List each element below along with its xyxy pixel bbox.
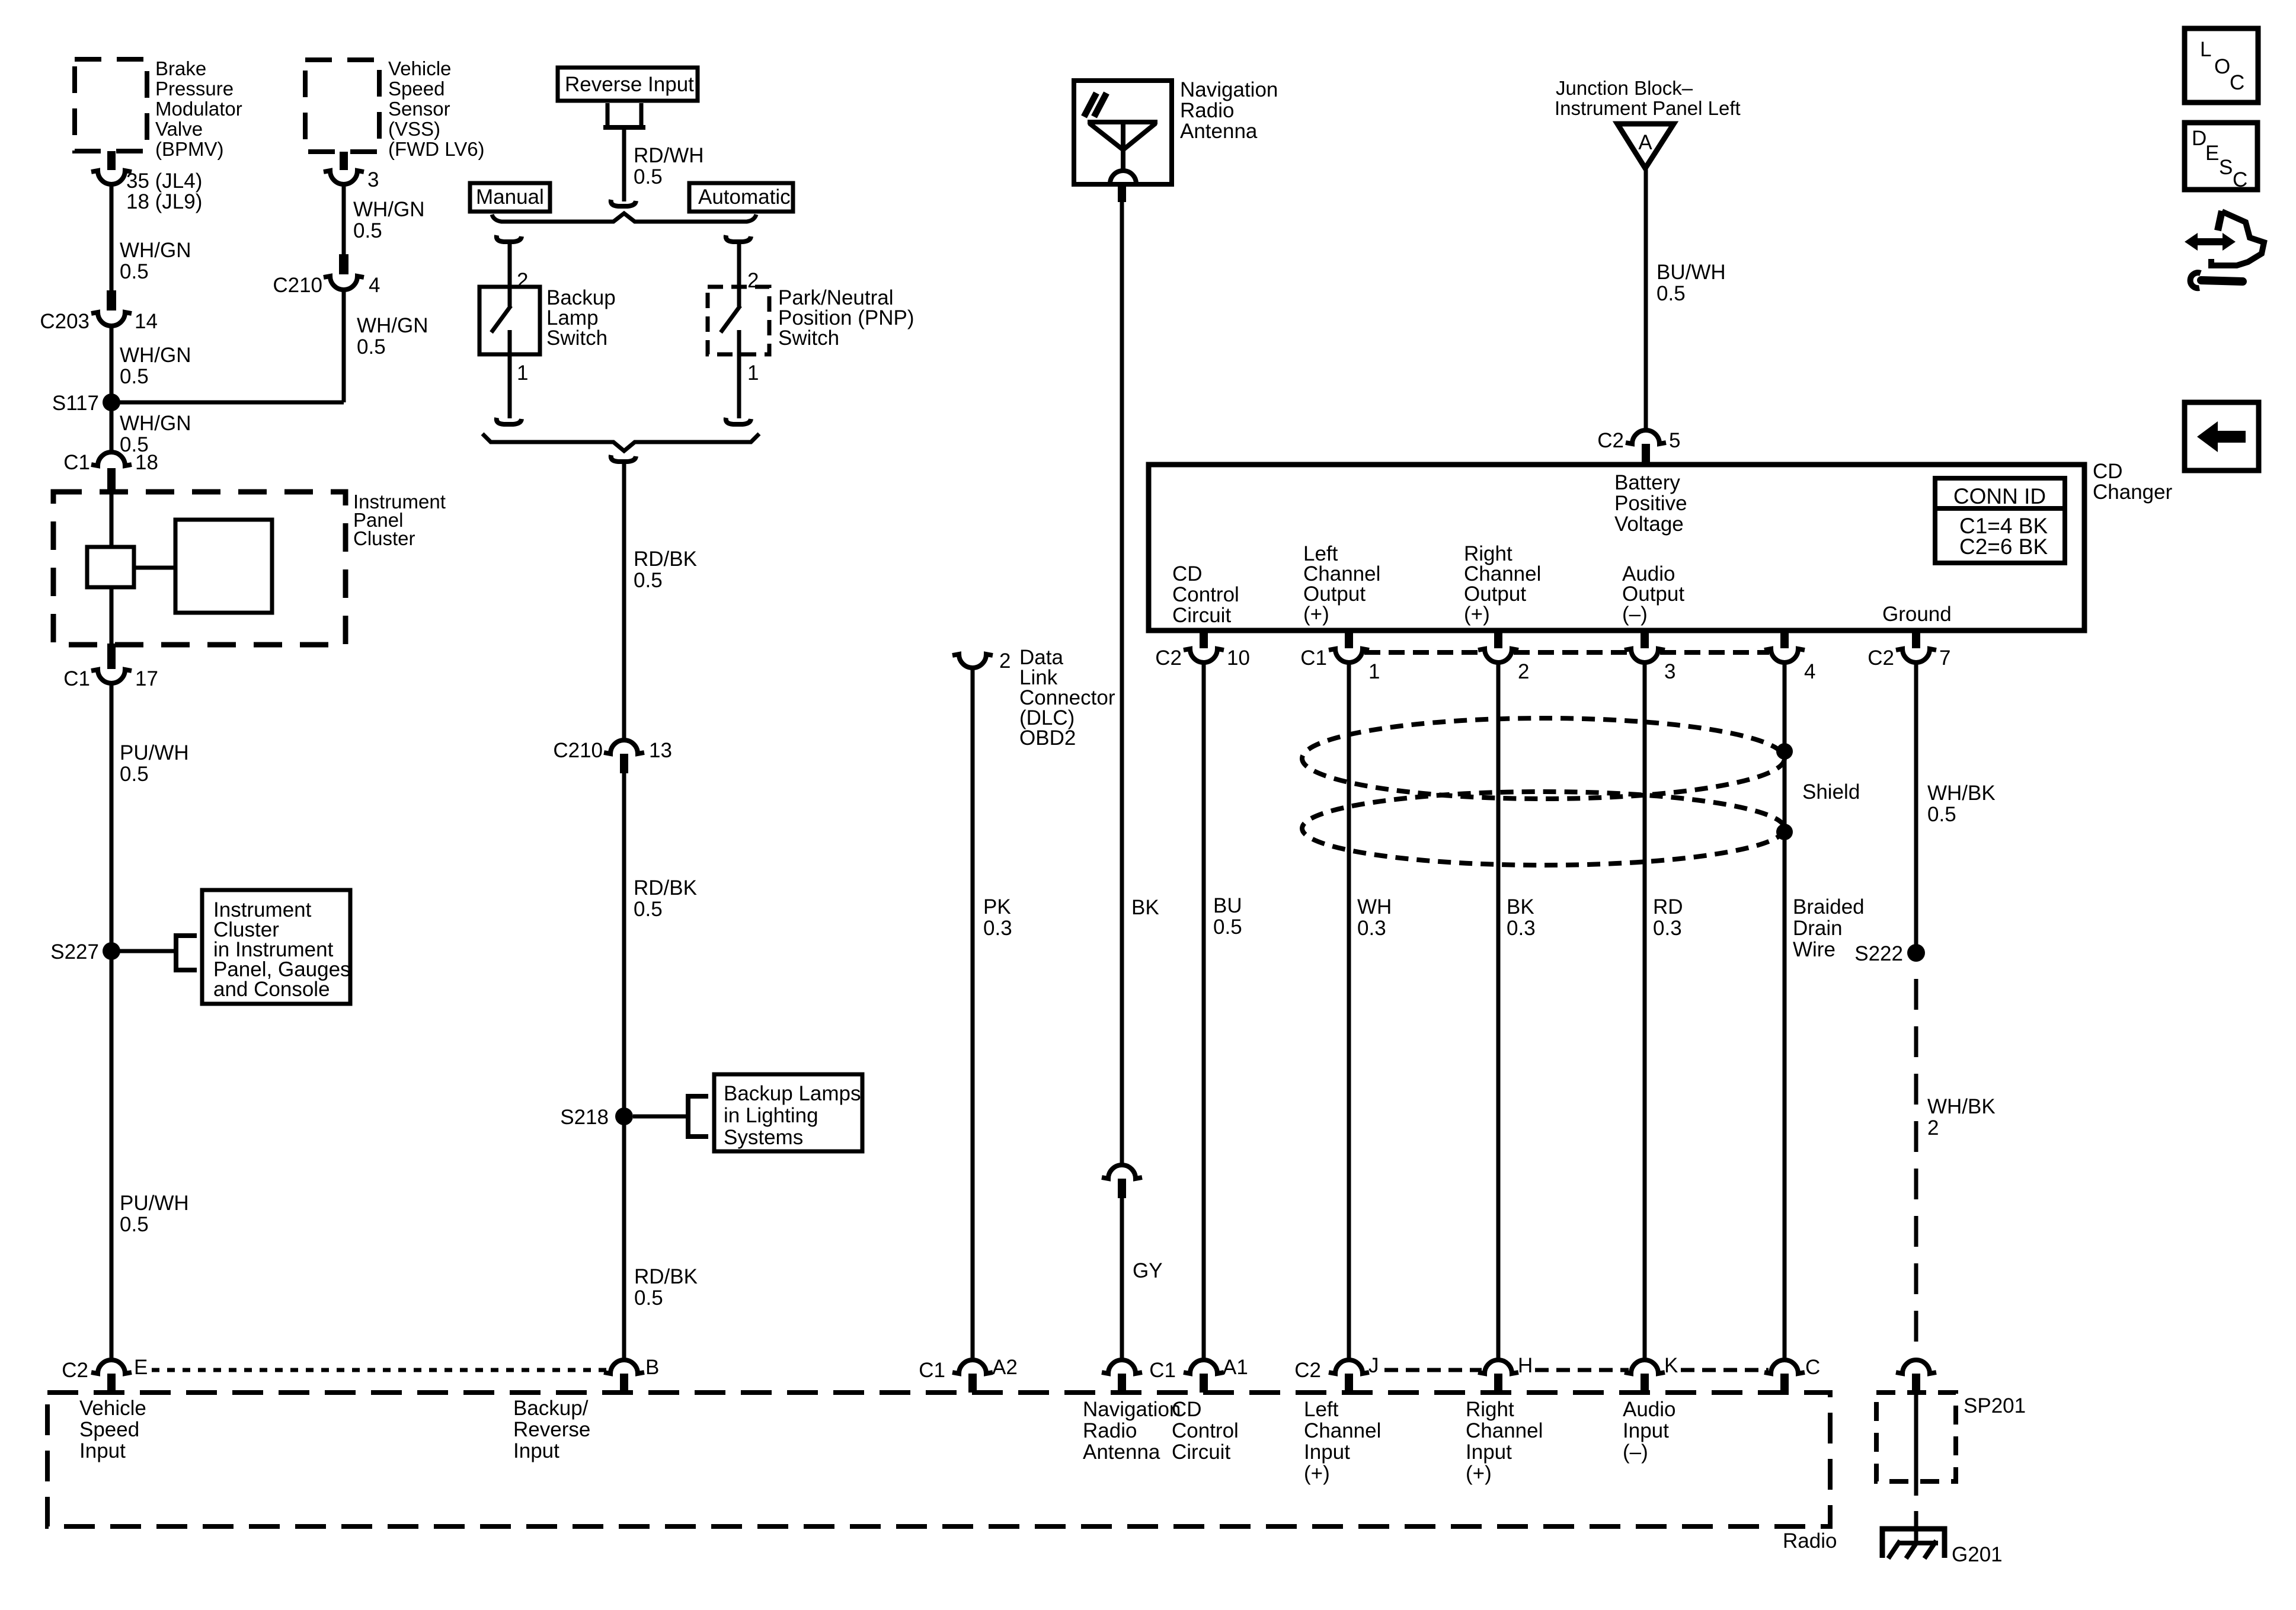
connector C1 pin A1 [1184, 1360, 1224, 1374]
svg-text:0.5: 0.5 [634, 165, 663, 188]
svg-text:E: E [2205, 142, 2219, 165]
svg-text:0.5: 0.5 [353, 219, 382, 242]
svg-text:L: L [2200, 38, 2211, 61]
svg-text:(–): (–) [1623, 1441, 1648, 1464]
svg-text:0.3: 0.3 [1507, 917, 1536, 940]
svg-text:Systems: Systems [724, 1126, 803, 1149]
inline connector C203 bar [107, 290, 116, 311]
svg-text:BU/WH: BU/WH [1657, 261, 1726, 284]
pin stub A2 [968, 1374, 977, 1393]
svg-text:BU: BU [1213, 894, 1242, 917]
wire WH/GN from VSS to C210 [342, 184, 346, 255]
svg-text:WH: WH [1357, 895, 1392, 918]
svg-text:(FWD LV6): (FWD LV6) [388, 138, 485, 160]
svg-text:2: 2 [1518, 660, 1529, 683]
component box Park/Neutral Position Switch (dashed) [708, 287, 769, 354]
wire S117 to VSS branch [111, 401, 344, 405]
connector C210 pin 4 [324, 276, 364, 290]
svg-text:PU/WH: PU/WH [120, 1192, 189, 1215]
svg-text:O: O [2214, 55, 2230, 78]
wire GY from inline connector to radio [1120, 1198, 1124, 1361]
pin stub SP201 [1912, 1374, 1920, 1394]
wire RD/WH from Reverse Input [622, 127, 626, 201]
svg-text:(+): (+) [1464, 603, 1490, 626]
connector C2 pin J [1329, 1360, 1369, 1374]
pin stub CD changer x=2528 [1494, 630, 1502, 648]
svg-text:Input: Input [1466, 1441, 1512, 1464]
component box Radio (dashed) [47, 1393, 1830, 1526]
curl at automatic branch end [726, 418, 751, 424]
wire inside IPC lower [110, 587, 114, 646]
IPC inner block large [175, 520, 272, 613]
svg-text:CD: CD [2093, 460, 2123, 483]
dotted connector line J-H-K-C [1384, 1368, 1482, 1372]
svg-text:3: 3 [367, 168, 379, 191]
svg-text:RD/BK: RD/BK [634, 876, 697, 900]
wire PK from DLC to C1-A2 [971, 668, 975, 1361]
shield junction dot lower [1776, 824, 1793, 840]
svg-text:(+): (+) [1466, 1462, 1492, 1485]
svg-text:C1: C1 [919, 1359, 945, 1382]
svg-text:B: B [645, 1356, 659, 1379]
svg-text:Voltage: Voltage [1614, 513, 1684, 536]
svg-text:WH/GN: WH/GN [353, 198, 425, 221]
PNP switch blade [721, 306, 740, 332]
junction block triangle A [1617, 124, 1674, 168]
svg-text:7: 7 [1939, 646, 1950, 670]
svg-text:CD: CD [1172, 1398, 1202, 1421]
icon wrench [2201, 280, 2243, 281]
svg-text:C210: C210 [273, 274, 322, 297]
wire WH/GN from C210-4 to S117 [342, 290, 346, 402]
svg-text:Manual: Manual [476, 185, 544, 209]
icon box back arrow [2185, 402, 2259, 470]
svg-text:Audio: Audio [1623, 1398, 1676, 1421]
svg-text:Speed: Speed [388, 78, 445, 100]
svg-text:10: 10 [1227, 646, 1250, 670]
component box Navigation Radio Antenna [1074, 81, 1172, 184]
svg-text:Circuit: Circuit [1172, 1441, 1230, 1464]
svg-text:C210: C210 [553, 739, 603, 762]
svg-text:WH/BK: WH/BK [1927, 782, 1996, 805]
svg-text:WH/GN: WH/GN [120, 412, 191, 435]
connector CD changer pin at x=2276 [1329, 649, 1369, 662]
connector CD changer pin at x=3011 [1764, 649, 1805, 662]
pin stub C [1780, 1374, 1789, 1393]
svg-text:C: C [2230, 71, 2244, 94]
pin stub C210-13 [620, 754, 628, 773]
svg-text:35 (JL4): 35 (JL4) [126, 169, 202, 193]
icon vehicle with arrow and wrench [2193, 238, 2227, 245]
svg-text:Positive: Positive [1614, 492, 1687, 515]
svg-text:(+): (+) [1304, 1462, 1330, 1485]
wire RD/BK from merge to C210-13 [622, 464, 626, 741]
dashed line linking C1 pins 1-4 [1364, 650, 1483, 655]
svg-text:Drain: Drain [1793, 917, 1843, 940]
svg-text:S117: S117 [52, 392, 99, 415]
svg-text:0.5: 0.5 [120, 1213, 149, 1236]
curl below merge brace [611, 455, 636, 462]
svg-text:Valve: Valve [155, 118, 203, 140]
merge brace below switches [482, 434, 759, 451]
svg-text:CONN ID: CONN ID [1953, 484, 2046, 508]
svg-text:Instrument Panel Left: Instrument Panel Left [1555, 97, 1741, 119]
svg-text:Left: Left [1304, 1398, 1339, 1421]
label box Automatic [689, 183, 793, 212]
shield ellipse lower [1302, 792, 1785, 865]
svg-text:C2: C2 [1155, 646, 1182, 670]
svg-text:RD: RD [1653, 895, 1683, 918]
wire manual branch to backup lamp switch [508, 244, 512, 288]
svg-text:Control: Control [1172, 583, 1239, 606]
dotted connector line E to B [152, 1368, 608, 1372]
wire PU/WH from C1-17 to C2-E [110, 683, 114, 1361]
connector C2 pin E [91, 1360, 132, 1374]
wire WH/GN from S117 to C1 pin 18 [110, 402, 114, 452]
svg-text:A1: A1 [1223, 1356, 1248, 1379]
svg-text:0.5: 0.5 [1657, 282, 1686, 305]
svg-text:A2: A2 [992, 1356, 1018, 1379]
svg-text:Vehicle: Vehicle [388, 57, 451, 79]
pin stub BPMV [107, 151, 116, 170]
svg-text:Ground: Ground [1882, 603, 1952, 626]
connector C203 pin 14 [91, 312, 132, 326]
wire WH/GN from BPMV to C203 [110, 184, 114, 292]
curl at automatic branch start [726, 235, 751, 242]
svg-text:C2=6 BK: C2=6 BK [1959, 534, 2048, 559]
backup lamp switch blade [491, 306, 511, 332]
svg-text:0.5: 0.5 [634, 569, 663, 592]
connector CD changer pin at x=3233 [1896, 649, 1936, 662]
svg-text:Antenna: Antenna [1083, 1441, 1160, 1464]
dashed wire WH/BK 2 from S222 to SP201 [1914, 979, 1918, 1361]
svg-text:(VSS): (VSS) [388, 118, 440, 140]
svg-text:S222: S222 [1854, 942, 1903, 965]
svg-text:Reverse Input: Reverse Input [565, 73, 694, 96]
svg-text:BK: BK [1507, 895, 1534, 918]
svg-text:Switch: Switch [778, 327, 839, 350]
connector pin B [604, 1360, 644, 1374]
svg-text:1: 1 [1368, 660, 1380, 683]
connector C2 pin 5 [1626, 430, 1666, 444]
component box Brake Pressure Modulator Valve (BPMV) [75, 59, 147, 151]
svg-text:Braided: Braided [1793, 895, 1865, 918]
svg-text:C2: C2 [62, 1359, 88, 1382]
svg-text:WH/GN: WH/GN [120, 239, 191, 262]
shield ellipse upper [1302, 718, 1785, 799]
svg-text:GY: GY [1133, 1259, 1163, 1282]
component box Vehicle Speed Sensor (VSS) [305, 60, 379, 152]
label box Manual [470, 183, 550, 212]
connector pin 3 of VSS [324, 171, 364, 184]
wire WH/BK from C2-7 to S222 [1914, 662, 1918, 953]
pin stub antenna radio [1118, 1374, 1126, 1393]
connector CD changer pin at x=2775 [1625, 649, 1665, 662]
svg-text:0.5: 0.5 [120, 365, 149, 388]
svg-text:C1: C1 [63, 667, 90, 690]
svg-text:A: A [1638, 131, 1652, 154]
connector CD changer pin at x=2031 [1184, 649, 1224, 662]
svg-text:18: 18 [135, 451, 158, 474]
wire WH left channel [1347, 662, 1351, 1361]
svg-text:0.5: 0.5 [634, 898, 663, 921]
wire S218 to backup lamps callout [633, 1115, 688, 1119]
svg-text:0.5: 0.5 [634, 1286, 663, 1310]
splice S227 [103, 942, 120, 960]
svg-text:2: 2 [999, 649, 1011, 673]
inline connector C210 bar [339, 254, 348, 274]
svg-text:1: 1 [747, 361, 759, 385]
pin stub C1-17 [107, 644, 116, 669]
svg-text:0.5: 0.5 [120, 260, 149, 283]
bracket to instrument cluster callout [176, 936, 197, 970]
svg-text:C2: C2 [1868, 646, 1894, 670]
connector pin K [1625, 1360, 1665, 1374]
svg-text:J: J [1368, 1354, 1379, 1377]
svg-text:Switch: Switch [546, 327, 607, 350]
svg-text:G201: G201 [1952, 1543, 2003, 1566]
splice S117 [103, 393, 120, 411]
svg-text:S218: S218 [560, 1106, 609, 1129]
svg-text:Modulator: Modulator [155, 98, 242, 120]
pin stub CD changer x=3011 [1780, 630, 1789, 648]
svg-text:(BPMV): (BPMV) [155, 138, 224, 160]
svg-text:0.5: 0.5 [1213, 916, 1242, 939]
svg-text:Radio: Radio [1083, 1419, 1137, 1442]
wire inside IPC upper [110, 492, 114, 548]
svg-text:RD/BK: RD/BK [634, 548, 697, 571]
svg-text:0.5: 0.5 [1927, 803, 1956, 826]
CONN ID table [1935, 478, 2065, 563]
wire RD audio output [1643, 662, 1647, 1361]
svg-text:Circuit: Circuit [1172, 604, 1231, 627]
svg-text:Backup Lamps: Backup Lamps [724, 1082, 861, 1105]
pin stub K [1641, 1374, 1649, 1393]
svg-text:Reverse: Reverse [513, 1418, 590, 1441]
pin stub CD changer x=2775 [1641, 630, 1649, 648]
svg-text:0.3: 0.3 [1653, 917, 1682, 940]
pin stub CD changer x=2031 [1200, 630, 1208, 648]
svg-text:17: 17 [135, 667, 158, 690]
split brace manual/automatic [492, 213, 756, 222]
icon box DESC [2185, 123, 2257, 190]
svg-text:Battery: Battery [1614, 471, 1680, 494]
svg-text:Backup/: Backup/ [513, 1397, 589, 1420]
svg-text:Vehicle: Vehicle [79, 1397, 146, 1420]
svg-text:4: 4 [1804, 660, 1815, 683]
svg-text:H: H [1518, 1354, 1533, 1377]
svg-text:0.3: 0.3 [1357, 917, 1386, 940]
svg-text:Radio: Radio [1783, 1529, 1837, 1553]
svg-text:Navigation: Navigation [1083, 1398, 1181, 1421]
svg-text:E: E [134, 1356, 148, 1379]
svg-text:3: 3 [1664, 660, 1675, 683]
component box Backup Lamp Switch [479, 287, 540, 354]
svg-text:C: C [2233, 168, 2247, 191]
wire RD/BK from C210-13 to S218 [622, 773, 626, 1116]
svg-text:Antenna: Antenna [1180, 120, 1258, 143]
svg-text:18 (JL9): 18 (JL9) [126, 190, 202, 213]
antenna signal slashes [1084, 93, 1096, 117]
svg-text:Wire: Wire [1793, 938, 1835, 961]
callout box Backup Lamps in Lighting Systems [714, 1074, 862, 1151]
svg-text:Input: Input [79, 1439, 126, 1462]
wire WH/GN from C203 to S117 [110, 326, 114, 402]
PNP switch top contact [737, 287, 741, 306]
antenna symbol [1088, 120, 1157, 124]
svg-text:5: 5 [1669, 429, 1680, 452]
svg-text:Right: Right [1466, 1398, 1514, 1421]
svg-text:Speed: Speed [79, 1418, 139, 1441]
svg-text:and Console: and Console [213, 978, 330, 1001]
svg-text:Cluster: Cluster [353, 527, 415, 549]
connector C1 pin 17 [91, 670, 132, 683]
svg-text:Control: Control [1172, 1419, 1239, 1442]
svg-text:S: S [2219, 156, 2233, 179]
svg-text:C1: C1 [1149, 1359, 1176, 1382]
splice S222 [1907, 944, 1925, 962]
svg-text:(+): (+) [1303, 603, 1329, 626]
link between IPC blocks [134, 566, 175, 570]
svg-text:Channel: Channel [1466, 1419, 1543, 1442]
svg-text:K: K [1664, 1354, 1678, 1377]
svg-text:1: 1 [517, 361, 528, 385]
svg-text:13: 13 [649, 739, 672, 762]
svg-text:(–): (–) [1622, 603, 1648, 626]
pin stub CD changer x=3233 [1912, 630, 1920, 648]
svg-text:14: 14 [135, 310, 158, 333]
pin stub inline antenna connector [1118, 1179, 1126, 1198]
svg-text:C203: C203 [40, 310, 89, 333]
svg-text:in Lighting: in Lighting [724, 1104, 818, 1127]
backup lamp switch top contact [508, 287, 512, 306]
svg-text:Input: Input [1304, 1441, 1350, 1464]
svg-text:WH/GN: WH/GN [357, 314, 428, 337]
svg-text:Changer: Changer [2093, 481, 2173, 504]
pin stub A1 [1200, 1374, 1208, 1393]
braided drain wire [1783, 662, 1787, 1361]
wire automatic branch below switch [737, 354, 741, 418]
pin stub J [1345, 1374, 1353, 1393]
svg-text:SP201: SP201 [1964, 1394, 2026, 1417]
splice pack SP201 dashed box [1876, 1393, 1956, 1481]
component box Instrument Panel Cluster [53, 492, 346, 645]
wire BK from antenna to inline connector [1120, 202, 1124, 1166]
svg-text:2: 2 [1927, 1116, 1939, 1140]
svg-text:Automatic: Automatic [698, 185, 791, 209]
connector antenna to radio [1102, 1360, 1142, 1374]
PNP switch bottom contact [737, 330, 741, 354]
pin stub C1-18 [107, 468, 116, 491]
svg-text:Pressure: Pressure [155, 78, 234, 100]
pin stub H [1494, 1374, 1502, 1393]
label box Reverse Input [558, 68, 698, 101]
connector C210 pin 13 [604, 740, 644, 754]
svg-text:RD/BK: RD/BK [634, 1265, 698, 1288]
curl at wire end above split brace [611, 200, 636, 206]
svg-text:PK: PK [983, 895, 1011, 918]
svg-text:Brake: Brake [155, 57, 206, 79]
wire manual branch below switch [508, 354, 512, 418]
svg-text:C1: C1 [1300, 646, 1327, 670]
svg-text:Navigation: Navigation [1180, 78, 1278, 101]
svg-text:WH/GN: WH/GN [120, 344, 191, 367]
wire BU/WH from junction block to C2-5 [1644, 168, 1648, 431]
wire RD/BK from S218 to connector B [622, 1116, 626, 1361]
svg-text:4: 4 [369, 274, 380, 297]
connector C1 pin A2 [952, 1360, 993, 1374]
pin stub VSS [340, 152, 348, 170]
svg-text:RD/WH: RD/WH [634, 144, 704, 167]
ground symbol G201 [1882, 1529, 1945, 1558]
svg-text:PU/WH: PU/WH [120, 741, 189, 764]
svg-text:Junction Block–: Junction Block– [1556, 77, 1693, 99]
shield junction dot upper [1776, 743, 1793, 760]
curl at manual branch start [497, 235, 522, 242]
connector pin H [1478, 1360, 1518, 1374]
pin stub C2-E [107, 1374, 116, 1393]
svg-text:Input: Input [513, 1439, 559, 1462]
pin stub CD changer x=2276 [1345, 630, 1353, 648]
svg-text:C1: C1 [63, 451, 90, 474]
svg-text:C2: C2 [1597, 429, 1624, 452]
svg-text:Input: Input [1623, 1419, 1669, 1442]
wire BK right channel [1496, 662, 1501, 1361]
svg-text:C2: C2 [1294, 1359, 1321, 1382]
svg-text:WH/BK: WH/BK [1927, 1095, 1996, 1118]
wire S227 to instrument cluster callout [120, 949, 176, 953]
IPC inner block small [87, 547, 134, 587]
svg-text:0.3: 0.3 [983, 917, 1012, 940]
inline connector on antenna lead [1102, 1165, 1142, 1179]
splice S218 [615, 1108, 633, 1125]
backup lamp switch bottom contact [508, 330, 512, 354]
connector to SP201 [1896, 1360, 1936, 1374]
wire through SP201 to ground [1914, 1394, 1918, 1496]
wire automatic branch to PNP switch [737, 244, 741, 288]
pin stub C2-5 [1642, 444, 1650, 465]
svg-text:Sensor: Sensor [388, 98, 450, 120]
svg-text:0.5: 0.5 [357, 335, 386, 359]
connector C1 pin 18 [91, 452, 132, 466]
connector CD changer pin at x=2528 [1478, 649, 1518, 662]
connector pin C [1764, 1360, 1805, 1374]
svg-text:BK: BK [1131, 896, 1159, 919]
svg-text:D: D [2192, 127, 2207, 150]
svg-text:C: C [1805, 1356, 1820, 1379]
wire BU from C2-10 to C1-A1 [1202, 662, 1206, 1361]
svg-text:Channel: Channel [1304, 1419, 1381, 1442]
svg-text:Shield: Shield [1802, 780, 1860, 804]
svg-text:S227: S227 [50, 940, 99, 964]
icon box LOC [2185, 28, 2258, 103]
svg-text:0.5: 0.5 [120, 763, 149, 786]
svg-text:CD: CD [1172, 562, 1203, 585]
pin stub antenna box [1118, 184, 1126, 202]
callout box Instrument Cluster in Instrument Panel, Gauges and Console [202, 890, 350, 1004]
connector pin 35/18 of BPMV [91, 171, 132, 184]
svg-text:Radio: Radio [1180, 99, 1234, 122]
pin stub B [620, 1374, 628, 1393]
bracket to backup lamps callout [688, 1096, 708, 1137]
component box CD Changer [1149, 465, 2084, 630]
connector pin 2 of DLC [952, 654, 993, 668]
curl at manual branch end [497, 418, 522, 424]
fork under Reverse Input [606, 103, 610, 127]
svg-text:OBD2: OBD2 [1019, 726, 1076, 750]
